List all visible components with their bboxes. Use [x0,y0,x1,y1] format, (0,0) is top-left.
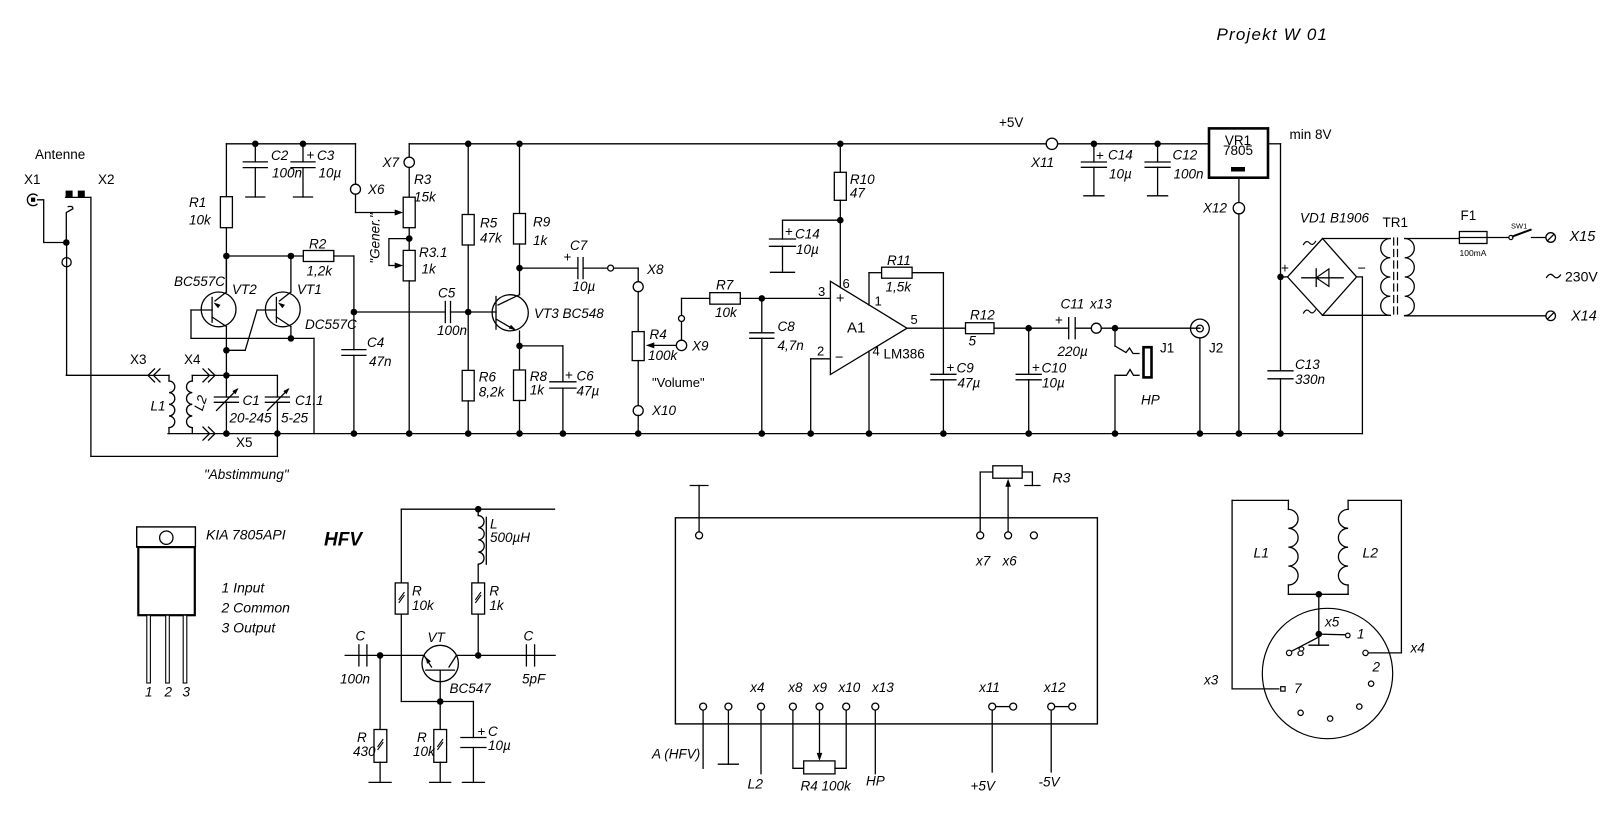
svg-text:F1: F1 [1461,208,1477,223]
svg-text:X12: X12 [1202,201,1228,216]
svg-text:430: 430 [353,744,376,759]
svg-text:x12: x12 [1043,680,1066,695]
svg-text:47n: 47n [369,354,392,369]
svg-text:C9: C9 [957,361,975,376]
svg-text:X10: X10 [651,403,677,418]
svg-text:−: − [835,350,843,366]
svg-text:47µ: 47µ [958,376,981,391]
svg-text:4,7n: 4,7n [778,338,804,353]
svg-text:X1: X1 [24,172,41,187]
svg-text:+: + [307,148,315,163]
svg-text:500µH: 500µH [490,530,530,545]
svg-text:1k: 1k [489,598,505,613]
svg-text:x5: x5 [1324,615,1340,630]
svg-text:+: + [1055,313,1063,328]
svg-text:6: 6 [843,276,850,291]
svg-text:−: − [1358,261,1366,277]
svg-text:C14: C14 [795,227,820,242]
svg-text:R4 100k: R4 100k [801,779,853,794]
svg-text:C5: C5 [438,286,456,301]
svg-text:3 Output: 3 Output [222,620,277,636]
svg-text:2: 2 [164,685,173,700]
svg-text:10µ: 10µ [1042,376,1065,391]
svg-text:HFV: HFV [324,530,363,551]
svg-text:C2: C2 [271,148,289,163]
svg-text:10µ: 10µ [796,242,819,257]
svg-text:X9: X9 [691,339,709,354]
svg-text:x4: x4 [1410,641,1425,656]
svg-text:VD1 B1906: VD1 B1906 [1300,211,1370,226]
svg-text:VT: VT [428,630,447,645]
svg-text:C: C [356,629,366,644]
svg-text:+: + [1032,360,1040,375]
svg-text:HP: HP [866,774,885,789]
svg-text:Antenne: Antenne [35,147,85,162]
svg-text:100mA: 100mA [1460,248,1487,258]
svg-text:20-245: 20-245 [229,411,273,426]
svg-text:R: R [357,730,367,745]
svg-text:5-25: 5-25 [281,411,309,426]
svg-text:+: + [478,724,486,739]
svg-text:7805: 7805 [1223,143,1253,158]
svg-text:7: 7 [1294,681,1302,696]
svg-text:R12: R12 [970,308,995,323]
svg-text:+: + [947,360,955,375]
svg-text:C: C [488,724,498,739]
svg-text:100n: 100n [1174,167,1204,182]
svg-text:DC557C: DC557C [305,317,357,332]
svg-text:2: 2 [817,344,824,359]
svg-text:x4: x4 [749,680,764,695]
svg-text:3: 3 [183,685,191,700]
svg-text:X5: X5 [236,435,253,450]
svg-text:VT3 BC548: VT3 BC548 [534,306,604,321]
svg-text:A (HFV): A (HFV) [651,747,700,762]
svg-text:Projekt W 01: Projekt W 01 [1217,25,1329,44]
svg-text:KIA 7805API: KIA 7805API [206,527,286,543]
svg-text:1: 1 [1357,627,1365,642]
svg-text:R7: R7 [716,278,734,293]
svg-text:C10: C10 [1042,361,1067,376]
svg-text:100k: 100k [648,348,679,363]
svg-text:x13: x13 [1089,297,1112,312]
svg-text:1 Input: 1 Input [222,580,266,596]
svg-text:5: 5 [969,334,977,349]
svg-text:-5V: -5V [1039,775,1062,790]
svg-text:3: 3 [818,284,825,299]
svg-text:8,2k: 8,2k [479,385,506,400]
svg-text:10k: 10k [413,744,436,759]
svg-text:LM386: LM386 [884,347,925,362]
svg-text:R6: R6 [479,370,497,385]
svg-text:J1: J1 [1160,341,1174,356]
svg-text:15k: 15k [414,190,437,205]
svg-text:R: R [412,584,422,599]
svg-text:x6: x6 [1002,554,1018,569]
svg-text:C3: C3 [317,148,335,163]
svg-text:C8: C8 [778,319,796,334]
svg-text:R: R [489,584,499,599]
svg-text:L2: L2 [1363,545,1379,561]
svg-text:x7: x7 [975,554,991,569]
svg-text:C4: C4 [367,335,384,350]
svg-text:8: 8 [1297,644,1305,659]
svg-text:X3: X3 [130,352,147,367]
svg-text:C14: C14 [1108,148,1133,163]
svg-text:+5V: +5V [971,779,997,794]
svg-text:X15: X15 [1569,229,1597,245]
svg-text:x8: x8 [787,680,803,695]
svg-text:1,2k: 1,2k [307,264,334,279]
svg-text:10µ: 10µ [319,166,342,181]
svg-text:X14: X14 [1570,309,1597,325]
svg-text:VT1: VT1 [297,282,322,297]
svg-text:47µ: 47µ [577,384,600,399]
svg-text:1k: 1k [530,383,546,398]
svg-text:"Gener.": "Gener." [368,212,383,264]
svg-text:47: 47 [850,186,866,201]
svg-text:X8: X8 [646,262,664,277]
svg-text:R3: R3 [414,172,432,187]
svg-text:10µ: 10µ [488,738,511,753]
svg-text:+: + [836,291,844,307]
svg-text:10k: 10k [715,305,738,320]
svg-text:"Abstimmung": "Abstimmung" [204,467,290,482]
svg-text:L1: L1 [1254,545,1270,561]
svg-text:+5V: +5V [999,115,1023,130]
svg-text:230V: 230V [1565,269,1598,285]
svg-text:C7: C7 [570,238,588,253]
svg-text:5pF: 5pF [522,672,546,687]
svg-text:C1.1: C1.1 [295,393,324,408]
svg-text:X11: X11 [1030,155,1054,170]
svg-text:10k: 10k [412,598,435,613]
svg-text:X2: X2 [98,172,115,187]
svg-text:10µ: 10µ [1109,167,1132,182]
svg-text:R3: R3 [1053,470,1071,486]
svg-text:2 Common: 2 Common [221,599,291,615]
svg-text:4: 4 [873,344,880,359]
svg-text:R1: R1 [189,195,206,210]
svg-text:C1: C1 [243,393,260,408]
svg-text:+: + [1281,261,1289,276]
svg-text:J2: J2 [1209,341,1223,356]
svg-text:R: R [417,730,427,745]
svg-text:x11: x11 [978,680,1000,695]
svg-text:"Volume": "Volume" [652,375,705,390]
svg-text:X6: X6 [367,182,385,197]
svg-text:TR1: TR1 [1383,215,1409,230]
svg-text:L2: L2 [748,776,764,792]
svg-text:+: + [1096,148,1104,163]
svg-text:C13: C13 [1295,357,1320,372]
svg-text:1k: 1k [422,262,438,277]
svg-text:1: 1 [145,685,153,700]
svg-text:R2: R2 [309,237,327,252]
svg-text:x9: x9 [812,680,828,695]
svg-text:10k: 10k [189,213,212,228]
svg-text:C6: C6 [577,369,595,384]
svg-text:1,5k: 1,5k [886,280,913,295]
svg-text:x3: x3 [1203,673,1219,688]
svg-text:L1: L1 [151,399,166,414]
svg-text:X7: X7 [382,155,400,170]
svg-text:47k: 47k [480,231,503,246]
svg-text:2: 2 [1372,660,1381,675]
svg-text:SW1: SW1 [1511,222,1527,231]
svg-text:R3.1: R3.1 [419,245,448,260]
svg-text:BC547: BC547 [450,681,492,696]
svg-text:R9: R9 [533,215,551,230]
svg-text:220µ: 220µ [1057,344,1089,359]
svg-text:R4: R4 [650,327,667,342]
svg-text:C11: C11 [1061,297,1085,312]
svg-text:5: 5 [911,312,918,327]
svg-text:A1: A1 [847,320,865,337]
svg-text:100n: 100n [437,323,467,338]
svg-text:x10: x10 [838,680,861,695]
svg-text:330n: 330n [1295,372,1325,387]
svg-text:C12: C12 [1173,148,1198,163]
svg-text:1k: 1k [533,233,549,248]
svg-text:BC557C: BC557C [174,274,225,289]
svg-text:+: + [785,224,793,239]
svg-text:x13: x13 [871,680,894,695]
svg-text:min 8V: min 8V [1290,127,1332,142]
svg-text:10µ: 10µ [573,279,596,294]
svg-text:C: C [524,629,534,644]
svg-text:VT2: VT2 [232,282,257,297]
svg-text:R5: R5 [480,216,498,231]
svg-text:100n: 100n [340,672,370,687]
svg-text:R11: R11 [887,253,911,268]
svg-text:1: 1 [875,294,882,309]
svg-text:X4: X4 [184,352,201,367]
svg-text:+: + [565,368,573,383]
svg-text:HP: HP [1141,393,1160,408]
